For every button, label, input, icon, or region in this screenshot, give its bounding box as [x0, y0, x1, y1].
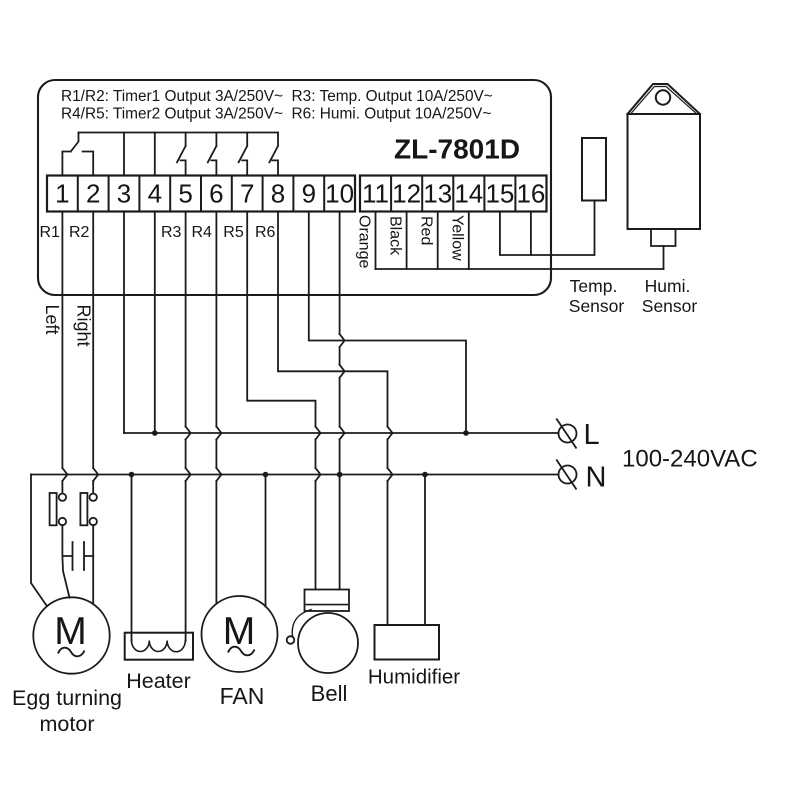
relay contact R5 (terminal 7) [239, 133, 248, 176]
heater junction on N [129, 472, 135, 478]
svg-text:Red: Red [418, 216, 435, 245]
controller box ZL-7801D [38, 80, 551, 295]
wire terminal 3 to bus [123, 133, 125, 176]
label Temp. Sensor [569, 276, 698, 316]
svg-text:FAN: FAN [220, 683, 265, 709]
heater box [125, 633, 193, 660]
svg-text:7: 7 [240, 179, 254, 209]
N line [31, 474, 559, 476]
sensor cable bar [376, 268, 664, 270]
svg-text:Orange: Orange [355, 215, 372, 268]
svg-text:L: L [584, 419, 600, 451]
svg-text:Yellow: Yellow [449, 215, 466, 261]
wire terminal 3 to L line [123, 212, 125, 434]
egg turning motor M1 [33, 597, 109, 673]
svg-text:1: 1 [55, 179, 69, 209]
svg-text:10: 10 [325, 179, 354, 209]
svg-text:Left: Left [42, 305, 62, 335]
svg-text:R2: R2 [69, 224, 90, 241]
svg-text:R4/R5: Timer2 Output 3A/250V~: R4/R5: Timer2 Output 3A/250V~ R6: Humi. … [61, 106, 491, 123]
N supply terminal [559, 466, 577, 484]
wire N to heater [131, 475, 133, 642]
wire terminal 4 to bus [154, 133, 156, 176]
heater element coil [132, 641, 186, 652]
wire terminal 7 down to bell (staircase) [247, 212, 315, 590]
svg-text:Temp.: Temp. [570, 276, 618, 296]
temp sensor probe [582, 138, 606, 201]
svg-text:R5: R5 [223, 224, 244, 241]
relay contact R1/R2 (SPDT over terminals 1,2) [62, 133, 93, 176]
L supply terminal [559, 425, 577, 443]
wire terminal 6 down to fan [215, 212, 217, 604]
N line drop to egg motor [31, 475, 47, 606]
fan motor M2 [202, 596, 278, 672]
wire terminal 16 [530, 212, 532, 256]
humidifier junction on N [422, 472, 428, 478]
junction T9-L [463, 430, 469, 436]
wire terminal 1 down to switch (Left) [61, 212, 63, 494]
bell gong [298, 613, 358, 673]
sensor wire color labels (rotated) [355, 215, 465, 268]
humi sensor hole [656, 90, 670, 104]
relay common bus [79, 132, 279, 134]
terminal strip 1 (terminals 1-10) [47, 176, 355, 212]
wire switch S2 to motor [92, 525, 94, 604]
svg-text:Black: Black [386, 216, 403, 256]
svg-text:R1: R1 [40, 224, 61, 241]
svg-text:15: 15 [485, 179, 514, 209]
wire terminal 5 down to heater [185, 212, 187, 642]
wire terminal 4 to L line [154, 212, 156, 434]
junction T4-L [152, 430, 158, 436]
motor AC tilde [58, 648, 85, 657]
wire terminal 2 down to switch (Right) [92, 212, 94, 494]
svg-text:2: 2 [86, 179, 100, 209]
svg-text:Right: Right [74, 305, 94, 347]
svg-text:Heater: Heater [126, 669, 191, 693]
bell box [305, 590, 350, 612]
svg-text:16: 16 [516, 179, 545, 209]
svg-text:Egg turning: Egg turning [12, 686, 122, 710]
wire terminal 8 down to humidifier (staircase) [278, 212, 388, 626]
svg-text:5: 5 [178, 179, 192, 209]
humi sensor stub [651, 229, 676, 246]
svg-text:4: 4 [148, 179, 162, 209]
relay contact R3 (terminal 5) [177, 133, 186, 176]
svg-text:M: M [223, 610, 256, 653]
terminal strip 2 (terminals 11-16) [360, 176, 547, 212]
bell striker [287, 636, 295, 644]
svg-text:R1/R2: Timer1 Output 3A/250V~: R1/R2: Timer1 Output 3A/250V~ R3: Temp. … [61, 88, 493, 105]
wire switch S1 to motor [62, 525, 69, 597]
svg-text:motor: motor [40, 712, 95, 736]
humi sensor body [628, 114, 701, 229]
svg-text:Sensor: Sensor [642, 296, 698, 316]
svg-text:12: 12 [392, 179, 421, 209]
relay contact R6 (terminal 8) [269, 133, 278, 176]
svg-text:13: 13 [423, 179, 452, 209]
fuse switch S1 (left) [50, 493, 57, 525]
svg-text:3: 3 [117, 179, 131, 209]
motor run capacitor [63, 542, 93, 570]
wire N to fan [265, 475, 267, 607]
svg-text:14: 14 [454, 179, 483, 209]
svg-text:Sensor: Sensor [569, 296, 625, 316]
fuse switch S2 (right) [80, 493, 87, 525]
fan junction on N [263, 472, 269, 478]
svg-text:Bell: Bell [311, 681, 348, 706]
svg-text:ZL-7801D: ZL-7801D [394, 134, 520, 165]
svg-text:11: 11 [362, 179, 389, 209]
svg-text:R3: R3 [161, 224, 182, 241]
wire T10/N to bell [339, 475, 341, 590]
relay labels R1-R6 [40, 224, 276, 241]
terminal numbers [55, 179, 545, 209]
relay contact R4 (terminal 6) [208, 133, 217, 176]
svg-text:N: N [586, 462, 607, 494]
svg-text:100-240VAC: 100-240VAC [622, 446, 758, 473]
wire N to humidifier [424, 475, 426, 626]
wire terminal 10 to N line [339, 212, 341, 475]
svg-text:9: 9 [302, 179, 316, 209]
svg-text:Humidifier: Humidifier [368, 666, 460, 689]
humidifier box [375, 625, 440, 660]
svg-text:M: M [54, 610, 87, 653]
load labels [12, 666, 460, 737]
svg-text:Humi.: Humi. [645, 276, 691, 296]
svg-text:8: 8 [271, 179, 285, 209]
wire terminal 9 to L line (staircase) [309, 212, 466, 434]
junction T10-N [337, 472, 343, 478]
svg-text:R4: R4 [192, 224, 213, 241]
svg-text:R6: R6 [255, 224, 276, 241]
sensor wires terminals 11-14 [376, 212, 469, 270]
wire terminal 15 to temp sensor [500, 201, 595, 256]
L line [124, 432, 559, 434]
svg-text:6: 6 [209, 179, 223, 209]
wire humi sensor down [663, 246, 665, 269]
fan AC tilde [228, 647, 255, 656]
humi sensor roof [628, 84, 701, 114]
